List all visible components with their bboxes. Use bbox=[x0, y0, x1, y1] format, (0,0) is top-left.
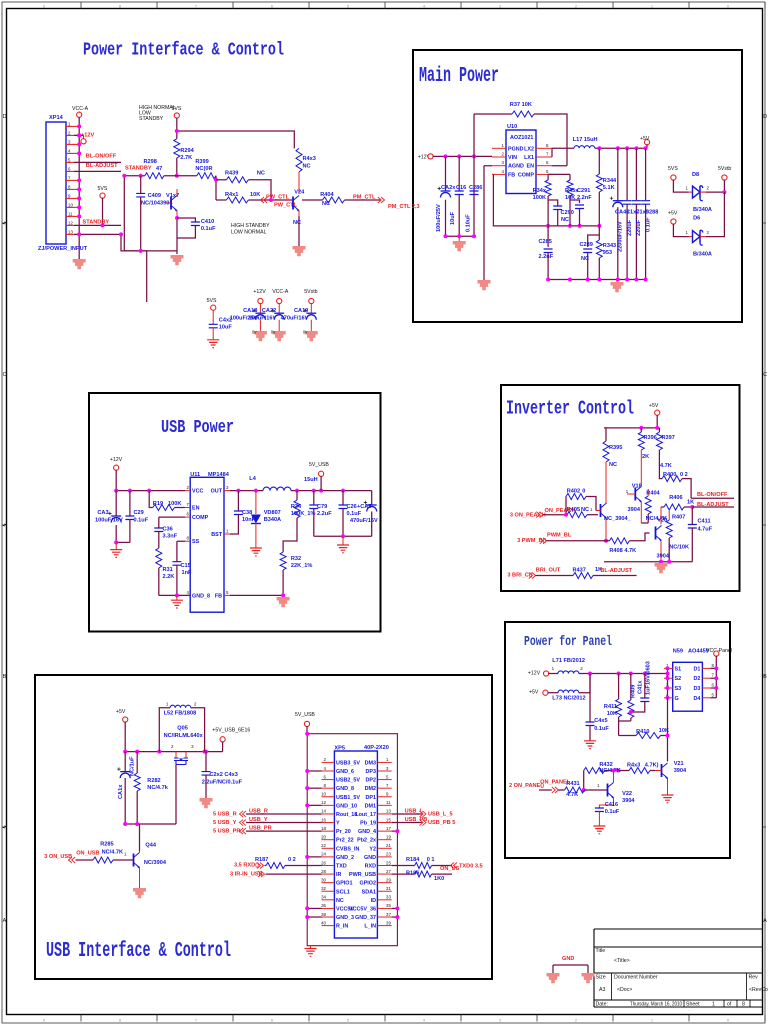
svg-text:5 USB_R: 5 USB_R bbox=[213, 811, 237, 817]
svg-text:R31: R31 bbox=[163, 567, 173, 573]
svg-text:BL-ADJUST: BL-ADJUST bbox=[600, 568, 632, 574]
svg-text:XP5: XP5 bbox=[334, 746, 345, 752]
svg-text:10: 10 bbox=[321, 792, 326, 797]
svg-text:SS: SS bbox=[192, 539, 200, 545]
svg-text:NC: NC bbox=[609, 462, 617, 468]
svg-text:+5V: +5V bbox=[529, 690, 539, 696]
svg-text:L73 NC/2012: L73 NC/2012 bbox=[552, 696, 585, 702]
svg-text:USB_PB: USB_PB bbox=[405, 817, 428, 823]
svg-text:AOZ1021: AOZ1021 bbox=[510, 135, 533, 141]
svg-text:0.1uF: 0.1uF bbox=[645, 217, 651, 232]
svg-text:1nF: 1nF bbox=[182, 570, 193, 576]
svg-text:D: D bbox=[3, 114, 7, 120]
svg-text:DM2: DM2 bbox=[365, 786, 376, 792]
svg-text:R294: R294 bbox=[180, 148, 194, 154]
svg-text:VD807: VD807 bbox=[264, 510, 281, 516]
svg-text:STANDBY: STANDBY bbox=[125, 165, 152, 171]
svg-text:B340A: B340A bbox=[264, 517, 281, 523]
svg-text:10K: 10K bbox=[607, 711, 617, 717]
svg-text:953: 953 bbox=[603, 250, 612, 256]
svg-text:5VS: 5VS bbox=[172, 106, 182, 112]
svg-text:C288: C288 bbox=[645, 210, 658, 216]
svg-text:STANDBY: STANDBY bbox=[139, 116, 164, 122]
svg-text:SCL1: SCL1 bbox=[336, 889, 350, 895]
svg-text:ON_USB: ON_USB bbox=[76, 851, 99, 857]
svg-text:R409: R409 bbox=[631, 685, 637, 698]
svg-text:CA18: CA18 bbox=[243, 308, 257, 314]
svg-text:2: 2 bbox=[575, 4, 577, 8]
svg-text:+5V: +5V bbox=[649, 403, 659, 409]
svg-text:28: 28 bbox=[321, 869, 326, 874]
svg-text:0: 0 bbox=[727, 1018, 729, 1022]
svg-text:V20: V20 bbox=[657, 517, 667, 523]
svg-text:R34x: R34x bbox=[533, 188, 547, 194]
svg-text:V24: V24 bbox=[294, 190, 305, 196]
svg-text:CA2x: CA2x bbox=[441, 185, 456, 191]
svg-text:5Vstb: 5Vstb bbox=[304, 289, 317, 295]
svg-text:DP1: DP1 bbox=[366, 795, 377, 801]
svg-text:NC/3904: NC/3904 bbox=[144, 860, 167, 866]
svg-text:XP14: XP14 bbox=[49, 115, 64, 121]
svg-text:ZJ/POWER_INPUT: ZJ/POWER_INPUT bbox=[38, 246, 88, 252]
svg-text:12: 12 bbox=[321, 800, 326, 805]
svg-text:4.7K: 4.7K bbox=[566, 792, 578, 798]
svg-text:R343: R343 bbox=[603, 243, 616, 249]
svg-text:FB: FB bbox=[508, 172, 515, 178]
svg-text:D4: D4 bbox=[693, 696, 700, 702]
svg-text:R408 4.7K: R408 4.7K bbox=[609, 548, 636, 554]
svg-text:NC: NC bbox=[257, 171, 265, 177]
svg-text:1K: 1K bbox=[687, 500, 694, 506]
svg-text:PWR_USB: PWR_USB bbox=[349, 872, 376, 878]
svg-text:L52 FB/1808: L52 FB/1808 bbox=[164, 711, 197, 717]
svg-text:GPIO2: GPIO2 bbox=[360, 881, 376, 887]
svg-text:NC: NC bbox=[293, 220, 301, 226]
svg-text:R34: R34 bbox=[291, 504, 302, 510]
svg-text:10K: 10K bbox=[659, 728, 669, 734]
svg-text:27: 27 bbox=[386, 869, 391, 874]
svg-text:2.7K: 2.7K bbox=[180, 155, 192, 161]
svg-text:ID: ID bbox=[371, 898, 376, 904]
svg-text:100uF/16V: 100uF/16V bbox=[95, 518, 123, 524]
svg-text:26: 26 bbox=[321, 860, 326, 865]
svg-text:BRI_OUT: BRI_OUT bbox=[536, 568, 561, 574]
svg-text:Power for Panel: Power for Panel bbox=[524, 635, 612, 650]
svg-text:3 PWM_B(): 3 PWM_B() bbox=[517, 538, 546, 544]
svg-text:R431: R431 bbox=[566, 781, 579, 787]
svg-text:32: 32 bbox=[321, 886, 326, 891]
svg-text:+5V: +5V bbox=[668, 211, 678, 217]
svg-text:7: 7 bbox=[195, 4, 197, 8]
svg-text:R37 10K: R37 10K bbox=[510, 102, 532, 108]
svg-text:10K: 10K bbox=[250, 192, 260, 198]
svg-text:GND: GND bbox=[364, 855, 376, 861]
svg-text:19: 19 bbox=[386, 835, 391, 840]
svg-text:DP2: DP2 bbox=[366, 778, 377, 784]
svg-text:C: C bbox=[763, 372, 767, 378]
svg-text:TXD0 3,5: TXD0 3,5 bbox=[459, 863, 483, 869]
svg-text:C2x2 C4x3: C2x2 C4x3 bbox=[210, 772, 238, 778]
svg-text:PWM_BL: PWM_BL bbox=[547, 532, 572, 538]
svg-text:3904: 3904 bbox=[622, 798, 635, 804]
svg-text:V21: V21 bbox=[674, 761, 684, 767]
svg-text:5: 5 bbox=[347, 4, 349, 8]
svg-text:0: 0 bbox=[727, 4, 729, 8]
svg-text:NC(0R: NC(0R bbox=[195, 166, 212, 172]
svg-text:2.2nF: 2.2nF bbox=[577, 195, 592, 201]
svg-text:15: 15 bbox=[386, 817, 391, 822]
svg-text:DP3: DP3 bbox=[366, 769, 377, 775]
svg-text:1K0: 1K0 bbox=[434, 876, 444, 882]
svg-text:R399: R399 bbox=[195, 159, 208, 165]
svg-text:VCC: VCC bbox=[192, 489, 203, 495]
svg-text:8: 8 bbox=[742, 1002, 745, 1008]
svg-text:2.2nF: 2.2nF bbox=[539, 254, 554, 260]
svg-text:CA19: CA19 bbox=[294, 308, 308, 314]
svg-text:24: 24 bbox=[321, 852, 326, 857]
svg-text:7: 7 bbox=[195, 1018, 197, 1022]
svg-text:Inverter Control: Inverter Control bbox=[506, 398, 634, 420]
svg-text:R344: R344 bbox=[603, 178, 617, 184]
svg-text:6: 6 bbox=[271, 4, 273, 8]
svg-text:A: A bbox=[763, 918, 767, 924]
svg-text:GND: GND bbox=[562, 956, 574, 962]
svg-text:0.1uF: 0.1uF bbox=[594, 726, 609, 732]
svg-text:100uF/25V: 100uF/25V bbox=[436, 204, 442, 232]
svg-text:FB: FB bbox=[215, 593, 222, 599]
svg-text:9: 9 bbox=[43, 1018, 45, 1022]
svg-text:Size: Size bbox=[596, 975, 606, 981]
svg-text:D6: D6 bbox=[693, 216, 700, 222]
svg-text:GND_37: GND_37 bbox=[355, 915, 376, 921]
svg-text:R4x3: R4x3 bbox=[627, 763, 640, 769]
svg-text:C410: C410 bbox=[201, 219, 214, 225]
svg-text:NC: NC bbox=[322, 201, 330, 207]
svg-text:4: 4 bbox=[423, 1018, 425, 1022]
svg-text:NC_3904_: NC_3904_ bbox=[604, 516, 632, 522]
svg-text:C16: C16 bbox=[456, 185, 466, 191]
svg-text:Q44: Q44 bbox=[145, 843, 156, 849]
svg-text:B/340A: B/340A bbox=[693, 207, 712, 213]
svg-text:470uF/16V: 470uF/16V bbox=[281, 316, 309, 322]
svg-text:100uF/16V: 100uF/16V bbox=[249, 316, 277, 322]
svg-text:+12V: +12V bbox=[253, 289, 266, 295]
svg-text:5V_USB: 5V_USB bbox=[295, 712, 315, 718]
svg-text:2K: 2K bbox=[642, 454, 649, 460]
svg-text:VIN: VIN bbox=[508, 155, 517, 161]
svg-text:Lout_17: Lout_17 bbox=[355, 812, 376, 818]
svg-text:L17 15uH: L17 15uH bbox=[573, 137, 598, 143]
svg-text:Power Interface & Control: Power Interface & Control bbox=[83, 41, 284, 61]
svg-text:Thursday, March 16, 2010: Thursday, March 16, 2010 bbox=[630, 1002, 682, 1008]
svg-text:9: 9 bbox=[43, 4, 45, 8]
svg-text:39: 39 bbox=[386, 920, 391, 925]
svg-text:USB1_5V: USB1_5V bbox=[336, 795, 360, 801]
svg-text:R184: R184 bbox=[406, 857, 420, 863]
svg-text:1uF16V/0603: 1uF16V/0603 bbox=[646, 661, 652, 695]
svg-text:35: 35 bbox=[386, 903, 391, 908]
svg-text:G: G bbox=[675, 696, 679, 702]
svg-text:ON_US: ON_US bbox=[440, 866, 460, 872]
svg-text:+CA5: +CA5 bbox=[357, 504, 371, 510]
svg-text:DM1: DM1 bbox=[365, 803, 376, 809]
svg-text:L4: L4 bbox=[249, 476, 256, 482]
svg-text:40P-2X20: 40P-2X20 bbox=[364, 745, 389, 751]
svg-text:BST: BST bbox=[211, 532, 222, 538]
svg-text:NC/4.7k: NC/4.7k bbox=[147, 785, 168, 791]
svg-text:SDA1: SDA1 bbox=[362, 889, 376, 895]
svg-text:TXD: TXD bbox=[336, 863, 347, 869]
svg-text:GND_8: GND_8 bbox=[192, 593, 210, 599]
svg-text:NC/IRLML640x: NC/IRLML640x bbox=[164, 733, 204, 739]
svg-text:BL-ON/OFF: BL-ON/OFF bbox=[697, 492, 728, 498]
svg-text:Pb2_2x: Pb2_2x bbox=[357, 838, 376, 844]
svg-text:V18: V18 bbox=[632, 484, 642, 490]
svg-text:+5V: +5V bbox=[640, 136, 650, 142]
svg-text:C38: C38 bbox=[242, 510, 252, 516]
svg-text:16: 16 bbox=[321, 817, 326, 822]
svg-text:+12V: +12V bbox=[110, 457, 123, 463]
svg-text:S1: S1 bbox=[675, 666, 682, 672]
svg-text:C285: C285 bbox=[539, 239, 552, 245]
svg-text:MP1484: MP1484 bbox=[208, 472, 230, 478]
svg-text:4.7uF: 4.7uF bbox=[698, 527, 713, 533]
svg-text:3 ON_PEACH: 3 ON_PEACH bbox=[510, 513, 546, 519]
svg-text:5V_USB: 5V_USB bbox=[309, 462, 329, 468]
svg-text:0v: 0v bbox=[271, 330, 276, 335]
svg-text:GND_8: GND_8 bbox=[336, 786, 354, 792]
svg-text:CVBS_IN: CVBS_IN bbox=[336, 846, 359, 852]
svg-text:R186: R186 bbox=[406, 871, 419, 877]
svg-text:3904: 3904 bbox=[674, 768, 687, 774]
svg-text:HIGH STANDBY: HIGH STANDBY bbox=[231, 223, 270, 229]
svg-text:2.2K: 2.2K bbox=[163, 574, 175, 580]
svg-text:R404: R404 bbox=[646, 491, 660, 497]
svg-text:R19: R19 bbox=[153, 501, 163, 507]
svg-text:GND_6: GND_6 bbox=[336, 769, 354, 775]
svg-text:2.2uF: 2.2uF bbox=[317, 511, 332, 517]
svg-text:8: 8 bbox=[119, 1018, 121, 1022]
svg-text:C290: C290 bbox=[561, 210, 574, 216]
svg-text:C15: C15 bbox=[181, 563, 191, 569]
svg-text:47: 47 bbox=[156, 166, 162, 172]
svg-text:R407: R407 bbox=[672, 515, 685, 521]
svg-text:EN: EN bbox=[192, 506, 200, 512]
svg-text:LOW NORMAL: LOW NORMAL bbox=[231, 230, 267, 236]
svg-text:R_IN: R_IN bbox=[336, 924, 348, 930]
svg-text:VCC5V_36: VCC5V_36 bbox=[349, 906, 376, 912]
svg-text:D1: D1 bbox=[693, 666, 700, 672]
svg-text:U11: U11 bbox=[190, 472, 200, 478]
svg-text:R397: R397 bbox=[662, 435, 675, 441]
svg-text:BL-ON/OFF: BL-ON/OFF bbox=[86, 154, 117, 160]
svg-text:5.1K: 5.1K bbox=[603, 185, 615, 191]
svg-text:PM_CTL: PM_CTL bbox=[353, 195, 376, 201]
svg-text:C: C bbox=[3, 372, 7, 378]
svg-text:C291: C291 bbox=[577, 188, 590, 194]
svg-text:4.7K): 4.7K) bbox=[645, 763, 659, 769]
svg-text:0.1uF: 0.1uF bbox=[134, 518, 149, 524]
svg-text:R396: R396 bbox=[644, 435, 657, 441]
svg-text:100K_1%: 100K_1% bbox=[291, 511, 316, 517]
svg-text:USB_L_5: USB_L_5 bbox=[428, 811, 453, 817]
svg-text:A3: A3 bbox=[599, 987, 605, 993]
svg-text:5 USB_PR: 5 USB_PR bbox=[213, 829, 240, 835]
svg-text:40: 40 bbox=[321, 920, 326, 925]
svg-text:0: 0 bbox=[582, 488, 585, 494]
svg-text:3,5 RXD(): 3,5 RXD() bbox=[234, 862, 259, 868]
svg-text:V22: V22 bbox=[622, 791, 632, 797]
svg-text:R405: R405 bbox=[567, 507, 580, 513]
svg-text:R187: R187 bbox=[255, 857, 268, 863]
svg-text:B: B bbox=[3, 674, 7, 680]
svg-text:GND_4: GND_4 bbox=[358, 829, 376, 835]
svg-text:470uF/16V: 470uF/16V bbox=[350, 518, 378, 524]
svg-text:Q05: Q05 bbox=[177, 726, 188, 732]
svg-text:GND_2: GND_2 bbox=[336, 855, 354, 861]
svg-text:3: 3 bbox=[499, 4, 501, 8]
svg-text:Pr2_22: Pr2_22 bbox=[336, 838, 354, 844]
svg-text:LX1: LX1 bbox=[524, 155, 534, 161]
svg-text:<Doc>: <Doc> bbox=[617, 987, 632, 993]
svg-text:3.3nF: 3.3nF bbox=[163, 534, 178, 540]
svg-text:R4x3: R4x3 bbox=[303, 156, 316, 162]
svg-text:BL-ADJUST: BL-ADJUST bbox=[697, 502, 729, 508]
svg-text:34: 34 bbox=[321, 895, 326, 900]
svg-text:CA1x: CA1x bbox=[118, 784, 124, 799]
svg-text:30: 30 bbox=[321, 877, 326, 882]
svg-text:0v: 0v bbox=[303, 330, 308, 335]
svg-text:RXD: RXD bbox=[365, 863, 376, 869]
svg-text:8: 8 bbox=[119, 4, 121, 8]
svg-text:3: 3 bbox=[499, 1018, 501, 1022]
svg-text:38: 38 bbox=[321, 912, 326, 917]
svg-text:5: 5 bbox=[347, 1018, 349, 1022]
svg-text:USB Interface & Control: USB Interface & Control bbox=[46, 940, 231, 963]
svg-text:Y: Y bbox=[336, 821, 340, 827]
svg-text:R402: R402 bbox=[567, 488, 580, 494]
svg-text:STANDBY: STANDBY bbox=[83, 220, 110, 226]
svg-text:1: 1 bbox=[651, 4, 653, 8]
svg-text:2200uF/16V: 2200uF/16V bbox=[618, 221, 624, 252]
svg-text:+5V_USB_6E16: +5V_USB_6E16 bbox=[212, 728, 250, 734]
svg-text:5Vstb: 5Vstb bbox=[718, 166, 731, 172]
svg-text:R298: R298 bbox=[144, 159, 157, 165]
svg-text:IR: IR bbox=[336, 872, 341, 878]
svg-text:2.2uF/NC/0.1uF: 2.2uF/NC/0.1uF bbox=[202, 780, 243, 786]
svg-text:B/340A: B/340A bbox=[693, 252, 712, 258]
svg-text:6: 6 bbox=[271, 1018, 273, 1022]
svg-text:13: 13 bbox=[386, 809, 391, 814]
svg-text:Sheet: Sheet bbox=[686, 1002, 700, 1008]
svg-text:R410: R410 bbox=[636, 729, 649, 735]
svg-text:C286: C286 bbox=[469, 185, 482, 191]
svg-text:1: 1 bbox=[651, 1018, 653, 1022]
svg-text:OUT: OUT bbox=[211, 489, 223, 495]
svg-text:D2: D2 bbox=[693, 676, 700, 682]
svg-text:S3: S3 bbox=[675, 686, 682, 692]
svg-text:C416: C416 bbox=[605, 802, 618, 808]
svg-text:R439: R439 bbox=[225, 171, 238, 177]
svg-text:4.7K: 4.7K bbox=[660, 463, 672, 469]
svg-text:USB2_5V: USB2_5V bbox=[336, 778, 360, 784]
svg-text:5VS: 5VS bbox=[98, 186, 108, 192]
svg-text:C29: C29 bbox=[134, 510, 144, 516]
svg-text:D: D bbox=[763, 114, 767, 120]
svg-text:R400: R400 bbox=[663, 472, 676, 478]
svg-text:Rout_18: Rout_18 bbox=[336, 812, 357, 818]
svg-text:10uF: 10uF bbox=[219, 325, 233, 331]
svg-text:15uH: 15uH bbox=[304, 477, 318, 483]
svg-text:18: 18 bbox=[321, 826, 326, 831]
svg-text:5VS: 5VS bbox=[207, 298, 217, 304]
svg-text:U10: U10 bbox=[507, 124, 517, 130]
svg-text:USB_PB 5: USB_PB 5 bbox=[428, 820, 455, 826]
svg-text:22: 22 bbox=[321, 843, 326, 848]
svg-text:CA3: CA3 bbox=[97, 510, 108, 516]
svg-text:4: 4 bbox=[423, 4, 425, 8]
svg-text:100K: 100K bbox=[533, 195, 546, 201]
svg-text:NC: NC bbox=[581, 507, 589, 513]
svg-text:2: 2 bbox=[575, 1018, 577, 1022]
svg-text:GND_3: GND_3 bbox=[336, 915, 354, 921]
svg-text:37: 37 bbox=[386, 912, 391, 917]
svg-text:COMP: COMP bbox=[192, 515, 209, 521]
svg-text:CA22: CA22 bbox=[262, 308, 276, 314]
svg-text:2 ON_PANE(): 2 ON_PANE() bbox=[509, 783, 544, 789]
svg-text:EN: EN bbox=[527, 164, 535, 170]
svg-text:D3: D3 bbox=[693, 686, 700, 692]
svg-text:BL-ADJUST: BL-ADJUST bbox=[86, 163, 118, 169]
svg-text:5VS: 5VS bbox=[668, 166, 678, 172]
svg-text:22K_1%: 22K_1% bbox=[291, 563, 312, 569]
svg-text:<RevCo: <RevCo bbox=[749, 987, 768, 993]
svg-text:NC: NC bbox=[336, 898, 344, 904]
svg-text:LX2: LX2 bbox=[524, 146, 534, 152]
svg-text:PW_CTL: PW_CTL bbox=[274, 203, 298, 209]
svg-text:NC/4.7K: NC/4.7K bbox=[102, 850, 123, 856]
svg-text:VCC-A: VCC-A bbox=[72, 106, 89, 112]
svg-text:N59: N59 bbox=[673, 649, 683, 655]
svg-text:D8: D8 bbox=[692, 172, 699, 178]
svg-text:3 BRI_C(): 3 BRI_C() bbox=[507, 572, 532, 578]
svg-text:C411: C411 bbox=[698, 519, 711, 525]
svg-text:R285: R285 bbox=[100, 842, 113, 848]
svg-text:R32: R32 bbox=[291, 556, 301, 562]
svg-text:Pb_19: Pb_19 bbox=[360, 821, 376, 827]
svg-text:0.10uF: 0.10uF bbox=[466, 214, 472, 232]
svg-text:USB Power: USB Power bbox=[161, 418, 234, 438]
svg-text:3904: 3904 bbox=[628, 507, 641, 513]
svg-text:Rev: Rev bbox=[749, 975, 759, 981]
svg-text:C4x5: C4x5 bbox=[594, 718, 607, 724]
svg-text:Date:: Date: bbox=[596, 1002, 608, 1008]
svg-text:NC: NC bbox=[561, 217, 569, 223]
svg-text:21: 21 bbox=[386, 843, 391, 848]
svg-text:PM_CTL 2,3: PM_CTL 2,3 bbox=[388, 204, 420, 210]
svg-text:GND_10: GND_10 bbox=[336, 803, 357, 809]
svg-text:Title: Title bbox=[596, 948, 606, 954]
svg-text:C79: C79 bbox=[317, 504, 327, 510]
svg-text:C36: C36 bbox=[163, 527, 173, 533]
svg-text:A: A bbox=[3, 918, 7, 924]
svg-text:L_IN: L_IN bbox=[364, 924, 376, 930]
svg-text:R404: R404 bbox=[320, 192, 334, 198]
svg-text:<Title>: <Title> bbox=[614, 958, 630, 964]
svg-text:Document Number: Document Number bbox=[614, 975, 658, 981]
svg-text:10K: 10K bbox=[565, 195, 575, 201]
svg-text:14: 14 bbox=[321, 809, 326, 814]
